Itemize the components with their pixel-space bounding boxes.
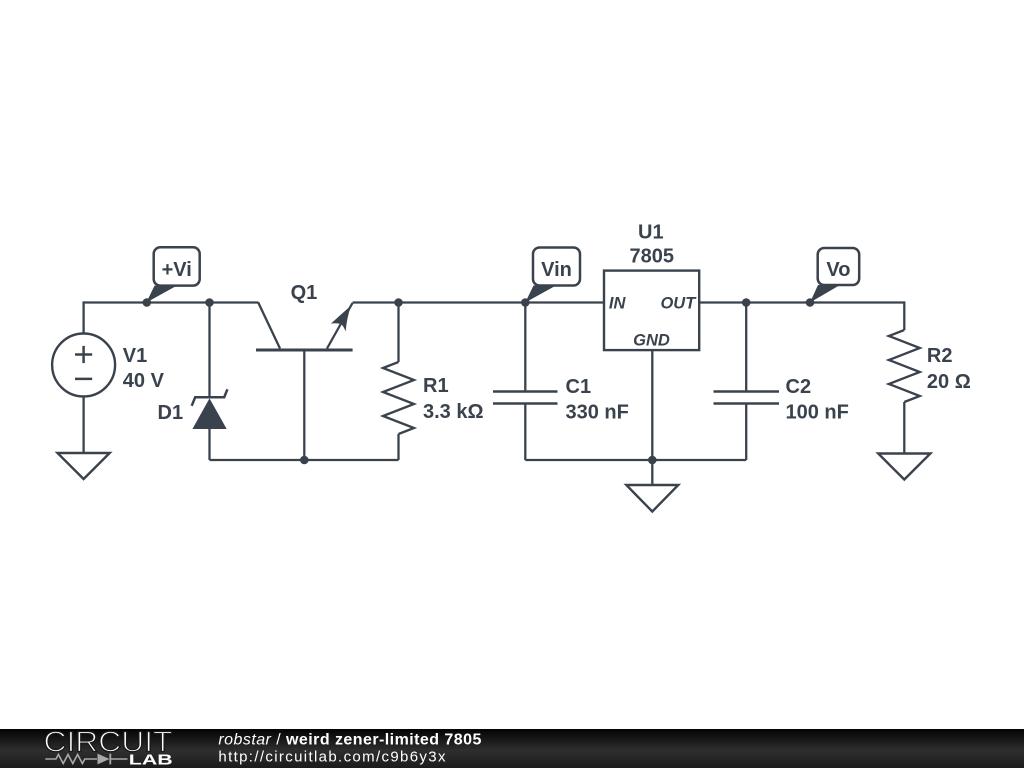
- node dot R1 top: [394, 298, 403, 307]
- logo doodle diode: [98, 754, 110, 765]
- wire gnd stub: [651, 460, 653, 485]
- svg-text:http://circuitlab.com/c9b6y3x: http://circuitlab.com/c9b6y3x: [218, 748, 446, 765]
- resistor R2: [889, 303, 971, 454]
- svg-text:Vin: Vin: [541, 259, 572, 281]
- svg-text:20 Ω: 20 Ω: [927, 371, 971, 393]
- ground (below R2): [878, 454, 930, 480]
- wire bottom rail middle: [525, 459, 746, 461]
- wire R2 top lead: [903, 303, 904, 331]
- zener diode D1: [158, 303, 228, 461]
- Q1 base bar: [256, 349, 353, 352]
- wire V1 bottom lead: [82, 397, 84, 454]
- svg-text:LAB: LAB: [129, 752, 173, 768]
- svg-text:330 nF: 330 nF: [566, 402, 629, 424]
- node +Vi flag: [146, 247, 199, 302]
- node dot +Vi: [143, 298, 152, 307]
- node dot U1 gnd: [648, 456, 657, 465]
- resistor R1: [383, 303, 484, 461]
- node dot Vin: [521, 298, 530, 307]
- svg-text:robstar / weird zener-limited: robstar / weird zener-limited 7805: [218, 732, 481, 749]
- wire C1 bottom lead: [524, 404, 526, 461]
- D1 cathode bar with zener ticks: [192, 389, 228, 406]
- svg-text:Vo: Vo: [826, 259, 850, 281]
- node Vo flag: [810, 248, 859, 303]
- wire D1 top lead: [208, 303, 210, 398]
- wire D1 bottom lead: [208, 429, 210, 460]
- transistor Q1: [256, 282, 353, 460]
- wire top rail right segment: [699, 301, 904, 303]
- svg-text:OUT: OUT: [660, 294, 697, 312]
- svg-text:IN: IN: [609, 294, 627, 312]
- svg-text:Q1: Q1: [291, 282, 318, 304]
- svg-text:D1: D1: [158, 402, 184, 424]
- wire C2 bottom lead: [745, 404, 747, 461]
- svg-text:V1: V1: [123, 345, 147, 367]
- wire top rail left segment: [84, 301, 258, 303]
- svg-text:40 V: 40 V: [123, 370, 165, 392]
- wire C2 top lead: [745, 303, 747, 392]
- svg-text:U1: U1: [638, 222, 664, 244]
- ground (below U1): [626, 485, 678, 512]
- svg-text:C1: C1: [566, 376, 592, 398]
- Q1 collector diagonal: [258, 302, 280, 349]
- logo doodle resistor: [45, 755, 97, 764]
- D1 anode triangle: [192, 398, 226, 429]
- svg-text:+Vi: +Vi: [162, 259, 192, 281]
- svg-text:R1: R1: [423, 375, 449, 397]
- svg-text:7805: 7805: [630, 246, 675, 268]
- wire V1 top lead: [82, 301, 84, 333]
- wire Q1 base lead: [303, 350, 305, 460]
- wire C1 top lead: [524, 303, 526, 392]
- svg-text:C2: C2: [786, 376, 812, 398]
- svg-text:3.3 kΩ: 3.3 kΩ: [423, 401, 484, 423]
- wire R1 top lead: [397, 303, 399, 363]
- wire R2 bottom lead: [903, 402, 905, 454]
- svg-text:R2: R2: [927, 345, 953, 367]
- footer bar: [0, 727, 1024, 768]
- voltage source V1: [52, 301, 165, 453]
- node dot Q1 base: [300, 456, 309, 465]
- capacitor C1: [493, 303, 629, 461]
- wire top rail middle segment: [353, 301, 605, 303]
- node dot D1 top: [205, 298, 214, 307]
- node dot C2 top: [742, 298, 751, 307]
- ground (below V1): [58, 453, 110, 479]
- regulator U1: [604, 222, 699, 461]
- wire U1 GND lead: [651, 350, 653, 460]
- svg-text:100 nF: 100 nF: [786, 402, 849, 424]
- node dot Vo: [806, 298, 815, 307]
- svg-text:GND: GND: [633, 331, 670, 349]
- wire R1 bottom lead: [397, 434, 399, 460]
- Q1 emitter arrow: [331, 306, 351, 332]
- capacitor C2: [714, 303, 849, 461]
- Q1 emitter diagonal: [327, 303, 353, 349]
- wire bottom rail left: [210, 459, 399, 461]
- node Vin flag: [525, 248, 580, 303]
